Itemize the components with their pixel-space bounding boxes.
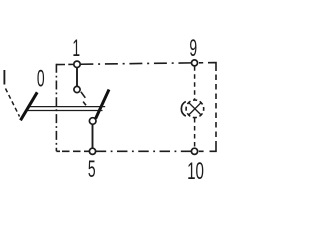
- terminal 1: [74, 61, 80, 67]
- coupling bar bottom line: [27, 110, 103, 112]
- wire: left dash-dot vertical x=56.4: [55, 64, 57, 152]
- wire: top dash-dot line, left segment from corner to terminal 1: [56, 63, 73, 65]
- svg-text:9: 9: [189, 35, 197, 62]
- terminal 9: [192, 60, 198, 66]
- lamp cross stroke 2: [189, 103, 201, 115]
- switch blade (right pole, open): [96, 90, 109, 119]
- wire: top right dash + corner into right border: [199, 63, 216, 71]
- terminal 5: [89, 148, 95, 154]
- wire: bottom dash-dot line between terminal 5 and terminal 10: [96, 150, 192, 152]
- wire: bottom right corner into terminal 10: [199, 145, 216, 152]
- wire: solid drop from terminal 1 to fixed contact: [76, 67, 78, 86]
- svg-text:5: 5: [88, 156, 96, 183]
- svg-text:1: 1: [72, 35, 80, 62]
- svg-text:10: 10: [187, 159, 204, 185]
- contact finger upper segment: [81, 92, 85, 98]
- indicator lamp L (dashed circle): [186, 100, 204, 118]
- wire: dashed vertical lamp to terminal 10: [194, 118, 196, 148]
- wire: bottom left dashes and corner: [56, 150, 89, 152]
- wire: right border dash-dot vertical: [215, 75, 217, 145]
- coupling bar top line: [30, 106, 106, 108]
- terminal 10: [191, 148, 197, 154]
- node: pivot contact of movable blade: [89, 118, 96, 125]
- node: fixed contact below terminal 1: [74, 86, 80, 92]
- svg-text:0: 0: [37, 66, 45, 93]
- lamp illumination paren: [181, 102, 185, 117]
- actuator lever (position 0): [21, 92, 38, 120]
- contact finger lower segment: [83, 102, 86, 106]
- wire: solid riser from terminal 5 to pivot contact: [92, 124, 94, 148]
- wire: dashed vertical terminal 9 to lamp: [194, 66, 196, 99]
- lamp cross stroke 1: [189, 103, 201, 115]
- dashed alternate position toward I: [6, 89, 20, 117]
- svg-text:I: I: [2, 66, 8, 90]
- wire: top dash-dot line from terminal 1 to terminal 9: [80, 63, 191, 64]
